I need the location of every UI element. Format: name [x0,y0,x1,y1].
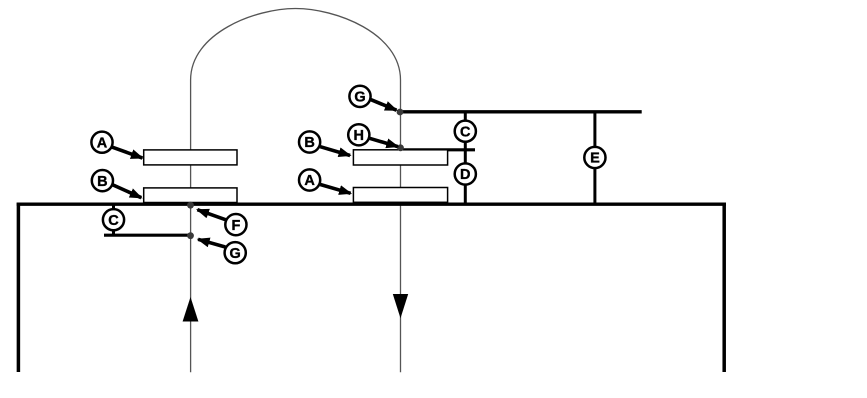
pointer arrow for label B (right) [320,147,350,156]
pointer arrow for label G (left) [198,239,225,247]
svg-text:E: E [590,151,600,167]
svg-text:B: B [97,174,107,190]
wire: vertical line through C and D [464,112,467,203]
label G (right) [349,86,370,107]
node G (right) junction dot [397,109,404,116]
svg-text:C: C [108,213,119,229]
svg-text:C: C [460,124,471,140]
node H junction dot [397,144,404,151]
wire: dome arc (bell jar top) [191,9,401,81]
pointer arrow for label H [370,138,398,146]
electrode plate A (right) [353,188,447,203]
electrode plate A (left) [144,150,237,165]
svg-text:A: A [304,173,315,189]
label F [225,214,246,235]
svg-text:B: B [304,135,314,151]
svg-text:D: D [460,167,470,183]
chamber box top wall [17,202,726,205]
label G (left) [225,242,246,263]
chamber box right wall [722,203,726,372]
label E [584,147,605,168]
wire: vertical line through E [593,112,596,204]
node F junction dot [187,202,194,209]
wire: left vertical tick through C (left) [112,204,115,235]
svg-text:H: H [354,128,364,144]
wire: horizontal line at node H [400,148,475,151]
label C (right) [455,121,476,142]
node G (left) junction dot [187,232,194,239]
chamber box left wall [17,203,21,372]
electrode plate B (right) [353,150,447,165]
label H [348,124,369,145]
label D [455,163,476,184]
pointer arrow for label A (right) [320,185,350,194]
pointer arrow for label B (left) [112,185,141,198]
electrode plate B (left) [144,188,237,203]
wire: horizontal line at node G (left) [104,234,191,237]
down flow arrow [393,294,408,318]
label B (left) [92,170,113,191]
svg-text:G: G [354,90,365,106]
svg-text:F: F [231,218,240,234]
pointer arrow for label G (right) [371,100,397,111]
up flow arrow [183,297,199,322]
wire: left thin vertical line (gas flow in) [190,80,192,372]
wire: top horizontal line (node G right) [400,110,642,113]
label C (left) [103,209,124,230]
label A (left) [91,132,112,153]
pointer arrow for label A (left) [112,147,142,158]
label B (right) [299,131,320,152]
svg-text:A: A [97,135,108,151]
wire: right thin vertical line (gas flow out) [400,80,402,372]
pointer arrow for label F [197,210,226,220]
label A (right) [299,169,320,190]
svg-text:G: G [230,246,241,262]
